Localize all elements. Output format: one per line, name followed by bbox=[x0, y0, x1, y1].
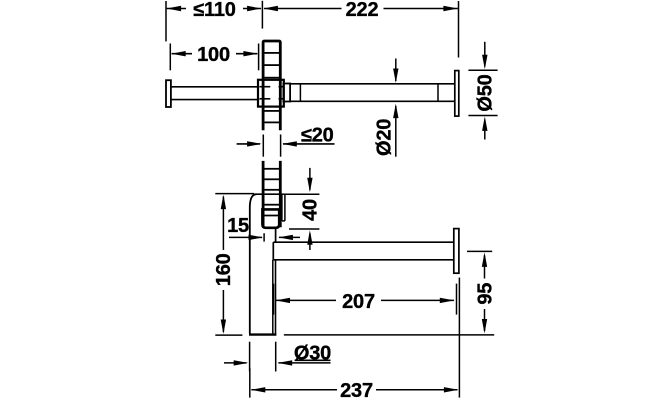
label ≤20 bbox=[301, 125, 334, 147]
label ≤110 bbox=[193, 0, 236, 21]
label 222 bbox=[346, 0, 379, 21]
tube lower right edges bbox=[273, 260, 276, 334]
dimension line 222 bbox=[263, 6, 458, 11]
label 95 bbox=[474, 283, 496, 305]
svg-text:≤20: ≤20 bbox=[301, 125, 334, 147]
extension line right of 222 bbox=[458, 1, 460, 58]
label Ø20 bbox=[374, 119, 396, 156]
svg-text:Ø20: Ø20 bbox=[374, 119, 396, 156]
collar bushing bbox=[283, 84, 290, 102]
extension line right of 100 bbox=[258, 44, 260, 71]
svg-text:≤110: ≤110 bbox=[193, 0, 236, 21]
dimension Ø30 bbox=[224, 342, 331, 372]
housing left arc bbox=[250, 194, 257, 333]
extension line left of 100 bbox=[169, 44, 171, 71]
label 40 bbox=[300, 199, 322, 221]
adjusting nut bbox=[262, 209, 279, 227]
dimension ≤20 arrows bbox=[237, 141, 335, 146]
label 15 bbox=[227, 215, 249, 237]
svg-text:100: 100 bbox=[197, 44, 230, 66]
dimension line ≤110 bbox=[167, 6, 262, 11]
label 237 bbox=[340, 380, 373, 400]
dimension 160 bbox=[215, 194, 254, 336]
bottom flange bbox=[454, 229, 459, 274]
threaded rod lower section bbox=[263, 161, 280, 227]
tube upper right edge bbox=[275, 229, 277, 242]
label 160 bbox=[213, 253, 235, 286]
svg-text:222: 222 bbox=[346, 0, 379, 21]
left flange bbox=[166, 80, 171, 107]
rod hole lines in clamp bbox=[259, 87, 283, 99]
main rod Ø20 bbox=[290, 84, 455, 102]
dimension Ø20 arrows bbox=[393, 59, 398, 157]
extension line left of ≤110 bbox=[165, 1, 167, 41]
label Ø50 bbox=[475, 74, 497, 111]
left rod bbox=[171, 87, 257, 100]
svg-text:160: 160 bbox=[213, 253, 235, 286]
dimension 95 bbox=[284, 251, 494, 335]
svg-text:Ø30: Ø30 bbox=[294, 343, 331, 365]
shared tick between ≤110 and 222 bbox=[261, 1, 263, 29]
thread break dashes bbox=[263, 135, 280, 157]
dimension 15 bbox=[229, 233, 300, 241]
threaded rod upper section bbox=[263, 41, 280, 130]
dimension 40 bbox=[284, 168, 320, 250]
label 100 bbox=[197, 44, 230, 66]
bottom rod bbox=[273, 242, 454, 260]
dimension 207 bbox=[274, 284, 457, 315]
dimension 237 bbox=[250, 278, 460, 398]
svg-text:Ø50: Ø50 bbox=[475, 74, 497, 111]
housing right tab bbox=[282, 194, 285, 221]
label 207 bbox=[342, 291, 375, 313]
svg-text:15: 15 bbox=[227, 215, 249, 237]
dimension Ø50 bbox=[468, 42, 497, 140]
tube bottom end bbox=[249, 333, 276, 335]
svg-text:40: 40 bbox=[300, 199, 322, 221]
svg-text:207: 207 bbox=[342, 291, 375, 313]
clamp block bbox=[258, 80, 284, 107]
right flange Ø50 bbox=[455, 71, 459, 117]
svg-text:95: 95 bbox=[474, 283, 496, 305]
housing top edge bbox=[257, 193, 284, 195]
dimension line 100 bbox=[171, 51, 258, 56]
svg-text:237: 237 bbox=[340, 380, 373, 400]
label Ø30 bbox=[294, 343, 331, 365]
